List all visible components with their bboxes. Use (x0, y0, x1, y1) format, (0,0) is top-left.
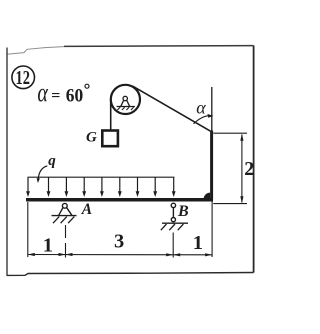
beam (26, 198, 213, 202)
weight G block (102, 131, 118, 147)
bottom extension line at support A (65, 225, 67, 258)
svg-text:12: 12 (16, 67, 30, 89)
rope right segment (133, 86, 212, 132)
svg-text:q: q (48, 153, 56, 169)
support B (161, 203, 188, 230)
corner gusset (204, 193, 211, 200)
svg-text:B: B (177, 203, 189, 220)
svg-text:α: α (37, 79, 48, 108)
svg-text:=: = (51, 87, 60, 104)
support A (52, 203, 77, 223)
angle arc alpha (194, 114, 214, 124)
svg-text:3: 3 (114, 231, 124, 253)
distributed load q top line (28, 176, 175, 178)
pulley (111, 85, 140, 114)
column thin upper part (211, 87, 213, 131)
label q leader arrow (37, 166, 48, 183)
label alpha = 60 deg (37, 79, 89, 108)
svg-text:60: 60 (66, 85, 83, 106)
svg-text:1: 1 (43, 234, 53, 256)
rope left segment (110, 99, 112, 130)
bottom extension line at beam left end (27, 202, 29, 257)
svg-text:G: G (86, 130, 97, 146)
column (thick) (210, 131, 213, 200)
pulley pin support (117, 96, 135, 110)
bottom dimension arrowheads (28, 253, 212, 257)
distributed load arrows (28, 177, 174, 192)
svg-text:2: 2 (244, 158, 254, 180)
svg-text:α: α (196, 98, 206, 118)
dimension 2 extension line bottom (213, 203, 247, 205)
dimension 2 line with arrows (240, 134, 243, 203)
bottom extension line at support B (172, 233, 174, 258)
svg-text:A: A (81, 201, 92, 218)
frame (decorative) (7, 46, 254, 276)
problem number 12 (12, 66, 35, 89)
bottom extension line at column (211, 202, 213, 258)
bottom dimension line (28, 254, 212, 256)
dimension 2 extension line top (213, 132, 247, 134)
svg-text:1: 1 (193, 232, 203, 254)
